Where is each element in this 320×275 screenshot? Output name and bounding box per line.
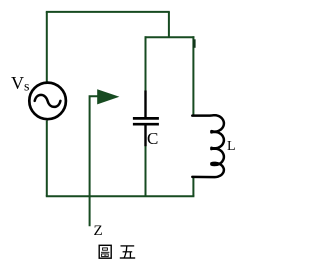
wire inductor right vertical bottom (green) xyxy=(192,176,194,196)
wire overlap dark segment xyxy=(193,39,196,48)
glyph 五 xyxy=(120,246,135,258)
wire inductor right vertical top (green) xyxy=(192,36,194,115)
voltage source Vs xyxy=(29,83,66,120)
caption 圖五 xyxy=(96,242,156,264)
wire junction horizontal xyxy=(145,36,195,38)
wire bottom horizontal xyxy=(46,195,195,197)
label Z xyxy=(94,223,103,240)
arrow probe Z xyxy=(90,89,120,226)
capacitor C xyxy=(133,91,159,147)
wire top horizontal xyxy=(46,11,170,13)
label Vs xyxy=(11,73,29,96)
wire capacitor top lead (green) xyxy=(145,36,147,91)
inductor L xyxy=(192,115,224,177)
label C xyxy=(147,129,158,149)
wire top drop to junction xyxy=(168,12,170,37)
glyph 圖 xyxy=(99,245,111,258)
wire left vertical (source branch) xyxy=(46,12,48,196)
label L xyxy=(227,139,236,155)
wire capacitor bottom lead (green) xyxy=(145,146,147,197)
